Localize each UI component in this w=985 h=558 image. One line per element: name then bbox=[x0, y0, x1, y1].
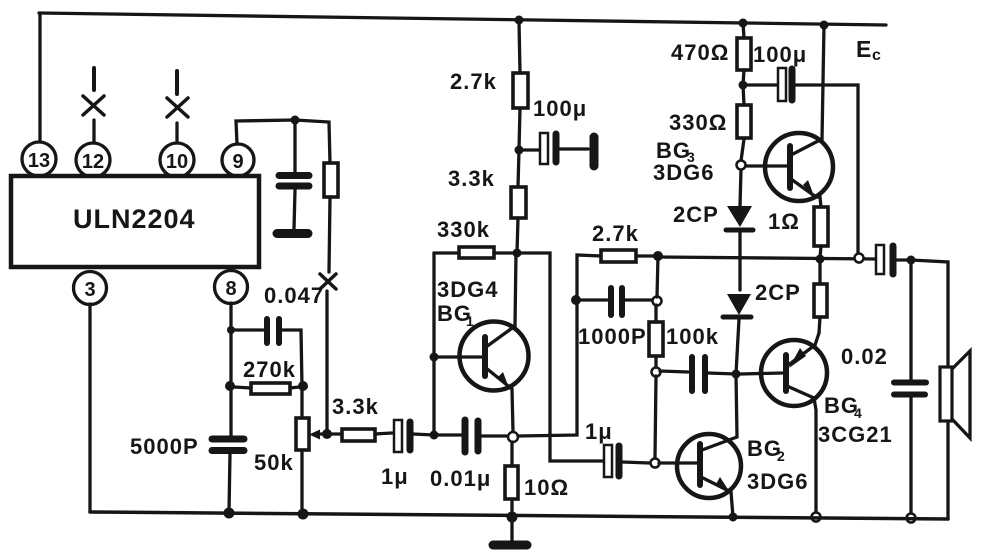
pin 10 no-connect dash bbox=[175, 71, 179, 94]
wire top supply rail bbox=[39, 13, 886, 25]
svg-text:50k: 50k bbox=[254, 450, 294, 475]
wire pin8 node down bbox=[229, 330, 232, 437]
pin 12 bbox=[76, 143, 110, 177]
node BG3 base (open) bbox=[737, 161, 746, 170]
wire pin 9 up to node bbox=[236, 120, 295, 144]
wire node to bypass resistor bbox=[295, 120, 330, 163]
wire pin 8 down bbox=[229, 303, 232, 330]
capacitor 1u (input) bbox=[394, 420, 402, 452]
node 470/330/100u bbox=[739, 81, 748, 90]
resistor 10 ohm bbox=[505, 466, 518, 499]
wire 2.7k left down to emitter line bbox=[518, 255, 601, 436]
capacitor output coupling bbox=[876, 245, 884, 274]
node top rail at 2.7k bbox=[515, 16, 524, 25]
svg-text:330Ω: 330Ω bbox=[669, 110, 727, 135]
wire BG4 emitter up bbox=[815, 333, 819, 345]
svg-text:E: E bbox=[856, 36, 871, 62]
resistor 3.3k (input) bbox=[342, 429, 375, 441]
output line from 2.7k to emitter resistors bbox=[658, 257, 877, 259]
node output cap / 0.02 bbox=[907, 256, 916, 265]
resistor 330 ohm bbox=[737, 105, 751, 138]
svg-text:3.3k: 3.3k bbox=[448, 166, 495, 191]
node 2.7k right bbox=[653, 251, 663, 261]
svg-text:3.3k: 3.3k bbox=[332, 394, 379, 419]
svg-text:100μ: 100μ bbox=[533, 96, 587, 121]
wire BG1 collector up bbox=[515, 253, 516, 326]
wire BG4 collector down to rail bbox=[814, 398, 816, 513]
svg-text:0.047: 0.047 bbox=[264, 283, 324, 308]
transistor Q BG2 3DG6 bbox=[677, 434, 741, 498]
node output at 100u bootstrap (open) bbox=[855, 254, 864, 263]
svg-text:330k: 330k bbox=[437, 217, 490, 242]
svg-text:1: 1 bbox=[466, 313, 474, 329]
capacitor 0.02 bbox=[909, 260, 912, 380]
pin 10 X mark bbox=[167, 98, 188, 117]
transistor Q BG3 3DG6 bbox=[765, 133, 833, 201]
svg-text:1μ: 1μ bbox=[585, 419, 613, 444]
node BG2 base (open) bbox=[651, 459, 660, 468]
svg-text:13: 13 bbox=[28, 150, 50, 172]
svg-text:9: 9 bbox=[232, 151, 243, 173]
svg-text:3: 3 bbox=[84, 279, 95, 301]
node BG4 collector rail (open) bbox=[812, 513, 821, 522]
wire to speaker bbox=[911, 260, 948, 367]
node top rail at BG3 collector bbox=[820, 21, 829, 30]
node 270k right / 50k top bbox=[298, 381, 308, 391]
svg-text:c: c bbox=[872, 47, 881, 64]
wire BG3 emitter to 1 ohm bbox=[816, 197, 821, 207]
wire 100k bottom down to BG2 base node bbox=[655, 376, 656, 458]
wire BG1 emitter down to node bbox=[512, 389, 513, 432]
svg-text:3DG6: 3DG6 bbox=[747, 469, 808, 494]
capacitor at pin 9 (to ground bar) bbox=[293, 120, 296, 172]
svg-text:470Ω: 470Ω bbox=[671, 40, 729, 65]
pin 3 bbox=[74, 272, 107, 305]
speaker bbox=[940, 367, 952, 421]
pin 12 no-connect dash bbox=[92, 68, 96, 90]
node 1000P left bbox=[571, 295, 581, 305]
pin 13 bbox=[22, 142, 56, 176]
node 1u / 0.01u / base line bbox=[430, 431, 439, 440]
capacitor 100u decoupling bbox=[519, 148, 540, 151]
svg-text:1μ: 1μ bbox=[381, 464, 409, 489]
capacitor 100u bootstrap bbox=[743, 83, 778, 86]
resistor 2.7k (bias) bbox=[601, 250, 636, 262]
wire pin 3 down to bottom rail bbox=[88, 304, 91, 512]
transistor Q BG1 3DG4 bbox=[460, 322, 529, 391]
svg-text:ULN2204: ULN2204 bbox=[73, 204, 196, 234]
node BG1 base bbox=[430, 353, 439, 362]
svg-text:2: 2 bbox=[777, 448, 785, 464]
svg-text:270k: 270k bbox=[243, 357, 296, 382]
svg-text:100μ: 100μ bbox=[753, 42, 807, 67]
resistor 1 ohm bbox=[814, 207, 828, 246]
pin 8 bbox=[215, 271, 248, 304]
node wiper / 3.3k / X line bbox=[322, 429, 332, 439]
resistor 470 ohm bbox=[737, 38, 751, 70]
svg-text:8: 8 bbox=[225, 278, 236, 300]
wire collector node to BG2 coupling cap bbox=[517, 253, 603, 461]
capacitor 1000P bbox=[577, 298, 607, 301]
diode D2 2CP bbox=[727, 294, 751, 315]
node 1000P right / 100k top (open) bbox=[653, 297, 662, 306]
pin 10 lead bbox=[175, 123, 178, 143]
wire BG2 emitter down to rail bbox=[731, 492, 733, 517]
node pin8 / 0.047 bbox=[227, 326, 235, 334]
pin 10 bbox=[160, 143, 194, 177]
wire BG3 collector to rail bbox=[820, 25, 824, 140]
diode D1 2CP bbox=[740, 169, 741, 206]
svg-text:2.7k: 2.7k bbox=[450, 69, 497, 94]
wire BG4 base node down to BG2 collector bbox=[736, 374, 737, 437]
svg-text:2CP: 2CP bbox=[673, 202, 719, 227]
node 100k bottom (open) bbox=[652, 368, 661, 377]
node 2.7k/3.3k junction bbox=[515, 146, 524, 155]
node bottom rail 5000P bbox=[224, 508, 235, 519]
X break mark (0.047 x) bbox=[320, 274, 336, 289]
svg-text:10: 10 bbox=[166, 151, 188, 173]
wire BG1 base vertical from 330k bbox=[432, 253, 435, 435]
potentiometer 50k bbox=[296, 418, 309, 450]
resistor (pin 9 branch, unlabeled) bbox=[324, 163, 338, 197]
capacitor C 0.047 bbox=[231, 328, 263, 331]
svg-text:0.01μ: 0.01μ bbox=[430, 466, 491, 491]
node bottom rail 50k bbox=[298, 509, 309, 520]
pin 9 bbox=[222, 144, 254, 176]
node BG4 base / D2 / BG2 collector bbox=[732, 370, 741, 379]
node 270k left bbox=[225, 381, 235, 391]
ground bar below pin9 capacitor bbox=[277, 229, 308, 238]
resistor 100k bbox=[649, 322, 663, 356]
node BG2 emitter rail bbox=[729, 513, 738, 522]
wire left from rail to pin 13 bbox=[38, 14, 41, 142]
svg-text:4: 4 bbox=[854, 405, 862, 421]
node 0.02 bottom rail (open) bbox=[907, 514, 916, 523]
transistor Q BG4 3CG21 bbox=[761, 340, 827, 406]
svg-text:0.02: 0.02 bbox=[841, 344, 888, 369]
node 330k / collector junction bbox=[513, 249, 522, 258]
capacitor 0.01u bbox=[462, 420, 469, 452]
IC ULN2204 bbox=[11, 176, 259, 267]
node output at 1 ohm bbox=[816, 255, 825, 264]
node emitter open circle bbox=[508, 432, 518, 442]
svg-text:3DG4: 3DG4 bbox=[437, 277, 498, 302]
wire bottom rail bbox=[90, 512, 948, 519]
svg-text:10Ω: 10Ω bbox=[524, 475, 569, 500]
ground bar at 100u bbox=[590, 137, 599, 166]
wire speaker down to rail bbox=[946, 421, 949, 519]
svg-text:1000P: 1000P bbox=[578, 324, 647, 349]
resistor 2.7k (BG1 collector load) bbox=[513, 73, 528, 108]
capacitor 1u (BG2 base coupling) bbox=[604, 445, 612, 477]
wire 2.7k right to output line bbox=[636, 254, 658, 257]
svg-text:100k: 100k bbox=[666, 324, 719, 349]
node pin9 cap junction bbox=[291, 116, 300, 125]
pin 12 lead bbox=[92, 120, 95, 143]
node top rail at 470 bbox=[739, 19, 748, 28]
svg-text:2.7k: 2.7k bbox=[592, 221, 639, 246]
resistor BG4 emitter bbox=[814, 284, 827, 317]
svg-text:3DG6: 3DG6 bbox=[653, 160, 714, 185]
capacitor 5000P bbox=[212, 436, 244, 443]
node bottom rail at 10 ohm bbox=[507, 512, 518, 523]
resistor 3.3k (BG1) bbox=[518, 150, 519, 187]
ground below bottom rail bbox=[493, 541, 527, 550]
resistor 270k bbox=[251, 383, 290, 394]
svg-text:5000P: 5000P bbox=[130, 434, 199, 459]
svg-text:12: 12 bbox=[82, 151, 104, 173]
resistor 330k bbox=[459, 247, 494, 258]
svg-text:2CP: 2CP bbox=[755, 280, 801, 305]
svg-text:3CG21: 3CG21 bbox=[818, 422, 893, 447]
wire resistor down to X break bbox=[329, 197, 330, 272]
capacitor (100k to BG4 base) bbox=[660, 371, 688, 372]
pin 12 X mark bbox=[83, 96, 104, 115]
svg-text:1Ω: 1Ω bbox=[768, 209, 800, 234]
50k wiper arrow bbox=[317, 432, 327, 435]
wire X break down to 3.3k node bbox=[325, 291, 328, 434]
